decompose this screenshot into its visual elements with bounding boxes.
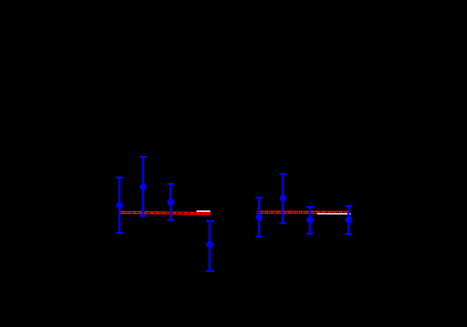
wire red band left group: [119, 212, 210, 213]
node P4 data point with error bar: [206, 221, 213, 271]
node P7 data point with error bar: [306, 207, 313, 234]
node P5 data point with error bar: [256, 198, 263, 237]
node P2 data point with error bar: [139, 157, 146, 216]
node P1 data point with error bar: [116, 178, 123, 234]
node P3 data point with error bar: [167, 184, 174, 220]
wire black dash-dot line left group: [119, 212, 210, 213]
wire red band right group: [257, 211, 349, 214]
wire white fit line right group: [317, 213, 351, 215]
wire white fit line left group: [197, 210, 211, 212]
node P8 data point with error bar: [345, 206, 352, 234]
node P6 data point with error bar: [279, 174, 286, 223]
wire black dash-dot line right group: [257, 211, 349, 213]
